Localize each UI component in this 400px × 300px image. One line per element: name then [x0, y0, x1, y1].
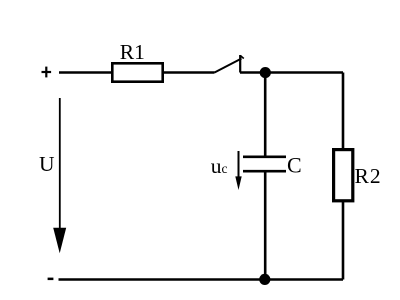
- wire source to R1: [59, 71, 112, 74]
- switch tip barb: [240, 56, 244, 59]
- svg-text:uc: uc: [211, 154, 228, 178]
- resistor R2: [334, 150, 353, 201]
- node A junction dot: [260, 67, 271, 78]
- resistor R1: [112, 63, 162, 81]
- wire node A down to capacitor: [264, 73, 267, 157]
- wire R1 to switch: [164, 71, 215, 74]
- wire node A to top-right corner: [265, 71, 343, 74]
- bottom wire: [59, 278, 344, 281]
- voltage uc arrow shaft: [238, 151, 240, 178]
- capacitor C top plate: [243, 156, 286, 159]
- capacitor C bottom plate: [243, 170, 286, 173]
- voltage uc arrowhead: [235, 176, 241, 190]
- voltage U arrow shaft: [59, 98, 61, 230]
- svg-text:U: U: [39, 152, 55, 176]
- svg-text:R1: R1: [120, 40, 145, 64]
- svg-text:C: C: [287, 152, 302, 177]
- svg-text:R2: R2: [355, 164, 382, 188]
- minus terminal label: [48, 278, 54, 281]
- switch fixed post: [239, 55, 241, 73]
- voltage U arrowhead: [53, 228, 66, 253]
- plus terminal label: [42, 71, 52, 73]
- node B junction dot: [259, 274, 270, 285]
- wire corner down to R2: [342, 73, 345, 151]
- wire capacitor to node B: [264, 172, 267, 280]
- switch S blade: [215, 59, 242, 73]
- wire switch to node A: [240, 71, 265, 74]
- wire R2 to bottom: [342, 201, 345, 280]
